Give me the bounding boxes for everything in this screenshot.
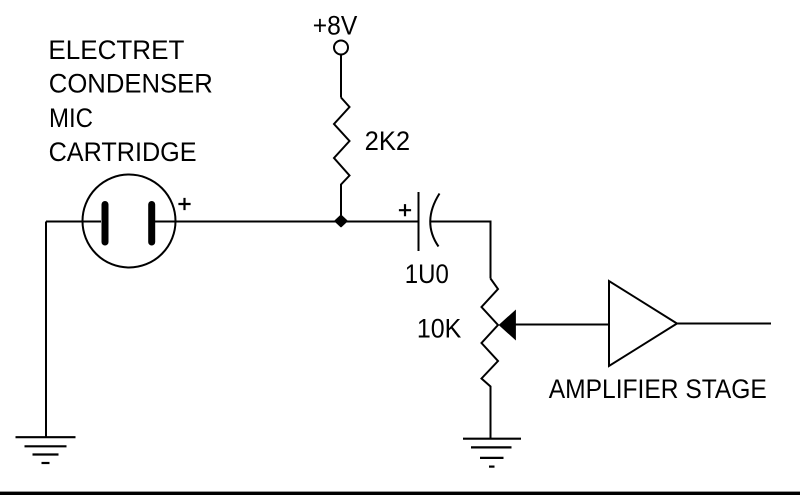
svg-text:ELECTRET: ELECTRET bbox=[48, 35, 184, 65]
wire from +8V terminal to resistor bbox=[340, 55, 342, 98]
wire mic down to ground bbox=[45, 222, 47, 438]
power terminal +8V bbox=[334, 41, 348, 55]
capacitor C1 1U0 bbox=[419, 192, 440, 251]
svg-text:AMPLIFIER STAGE: AMPLIFIER STAGE bbox=[549, 374, 767, 404]
svg-text:CARTRIDGE: CARTRIDGE bbox=[49, 137, 197, 167]
wire from mic to capacitor (main horizontal) bbox=[155, 221, 418, 223]
wire from wiper to amplifier bbox=[515, 324, 609, 326]
plus sign (cap polarity) bbox=[399, 204, 411, 216]
svg-text:MIC: MIC bbox=[49, 103, 93, 133]
resistor R1 2K2 bbox=[334, 98, 350, 222]
svg-text:10K: 10K bbox=[417, 314, 461, 344]
svg-text:+8V: +8V bbox=[313, 11, 358, 41]
svg-text:CONDENSER: CONDENSER bbox=[49, 69, 213, 99]
wire amplifier output bbox=[677, 323, 771, 325]
svg-text:2K2: 2K2 bbox=[365, 126, 411, 156]
svg-text:1U0: 1U0 bbox=[405, 259, 449, 289]
node junction at resistor/main wire bbox=[335, 216, 346, 227]
ground (left) bbox=[16, 437, 76, 463]
wire left of mic bbox=[46, 221, 101, 223]
label ELECTRET CONDENSER MIC CARTRIDGE bbox=[48, 35, 212, 167]
plus sign (mic polarity) bbox=[178, 198, 190, 210]
ground (below potentiometer) bbox=[463, 439, 521, 467]
wire from capacitor to potentiometer (corner) bbox=[431, 222, 491, 279]
wiper arrow of potentiometer bbox=[499, 311, 515, 340]
microphone MIC1 (electret condenser cartridge) bbox=[83, 175, 176, 268]
potentiometer VR1 10K bbox=[482, 279, 499, 439]
op-amp U1 amplifier stage triangle bbox=[609, 281, 677, 366]
